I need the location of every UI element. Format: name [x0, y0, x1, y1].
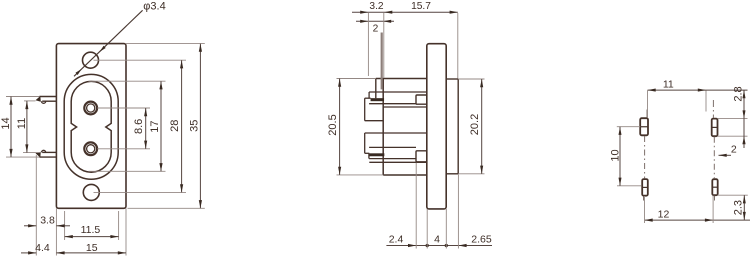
svg-text:28: 28 — [169, 120, 181, 132]
svg-text:4.4: 4.4 — [35, 242, 50, 254]
svg-text:2.8: 2.8 — [732, 86, 744, 101]
svg-text:14: 14 — [0, 117, 12, 129]
svg-text:11: 11 — [663, 78, 674, 90]
svg-text:20.2: 20.2 — [469, 114, 481, 135]
svg-text:4: 4 — [434, 233, 440, 245]
svg-text:2: 2 — [373, 23, 379, 34]
svg-text:2.65: 2.65 — [471, 233, 492, 245]
svg-text:10: 10 — [609, 149, 621, 161]
svg-text:35: 35 — [189, 120, 201, 132]
svg-text:20.5: 20.5 — [327, 114, 339, 135]
svg-text:2.3: 2.3 — [733, 200, 745, 215]
svg-text:8.6: 8.6 — [133, 119, 145, 134]
svg-text:15: 15 — [86, 242, 98, 254]
svg-text:15.7: 15.7 — [411, 1, 431, 12]
svg-text:2: 2 — [731, 144, 737, 156]
svg-text:12: 12 — [658, 208, 670, 220]
svg-text:11.5: 11.5 — [81, 224, 101, 236]
svg-text:2.4: 2.4 — [389, 233, 404, 245]
svg-text:17: 17 — [149, 120, 161, 132]
svg-text:11: 11 — [16, 118, 28, 129]
svg-text:φ3.4: φ3.4 — [143, 1, 165, 13]
svg-text:3.2: 3.2 — [369, 1, 383, 12]
svg-text:3.8: 3.8 — [40, 215, 55, 227]
